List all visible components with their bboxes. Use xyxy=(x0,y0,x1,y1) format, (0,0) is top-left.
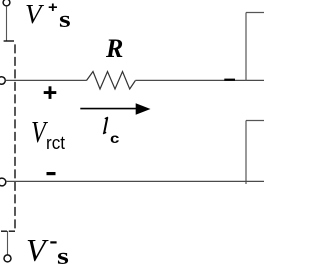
plus sign on + wire xyxy=(44,91,57,94)
terminal + (left circle upper) xyxy=(0,77,5,85)
right component top lead vertical xyxy=(245,13,247,82)
right component top horizontal xyxy=(246,12,264,14)
label I of Ic (italic slash) xyxy=(104,118,107,134)
wire - terminal to right edge xyxy=(6,180,264,182)
junction tick on top wire xyxy=(224,79,235,81)
label R (resistor) xyxy=(106,36,123,62)
dashed box right edge xyxy=(14,44,16,230)
right component bottom horizontal xyxy=(246,120,264,122)
dashed box top edge xyxy=(4,40,14,42)
label V-s (bottom supply) xyxy=(26,234,46,264)
right component bottom lead vertical xyxy=(245,121,247,185)
wire from box bottom to bottom terminal xyxy=(7,231,9,255)
terminal V-s (bottom circle) xyxy=(4,255,11,262)
label Ic (current) xyxy=(110,131,119,145)
terminal V+s (top circle) xyxy=(3,0,10,6)
minus superscript of bottom V-s xyxy=(50,241,56,243)
label Vrct (voltage across) xyxy=(31,116,46,147)
terminal - (left circle lower) xyxy=(0,178,6,186)
current arrow Ic xyxy=(80,108,137,110)
wire from top terminal down to box xyxy=(6,6,8,41)
resistor R zigzag xyxy=(87,72,136,90)
dashed box bottom edge xyxy=(1,230,7,232)
label V+s (top supply) xyxy=(25,1,42,28)
minus sign on - wire xyxy=(47,172,56,175)
wire + terminal to resistor xyxy=(5,79,86,81)
wire resistor to right edge xyxy=(135,79,264,81)
